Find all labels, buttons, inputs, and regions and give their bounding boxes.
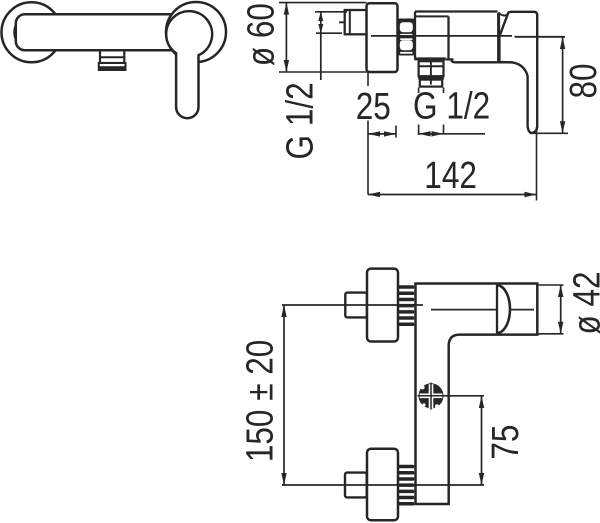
svg-text:ø 60: ø 60 <box>240 3 282 66</box>
svg-text:ø 42: ø 42 <box>566 271 600 334</box>
svg-text:25: 25 <box>356 85 391 127</box>
svg-text:G 1/2: G 1/2 <box>279 82 321 159</box>
svg-text:142: 142 <box>424 154 477 196</box>
svg-text:G 1/2: G 1/2 <box>413 85 490 127</box>
svg-text:80: 80 <box>562 63 600 98</box>
svg-text:150 ± 20: 150 ± 20 <box>239 340 281 462</box>
svg-text:75: 75 <box>484 425 526 460</box>
